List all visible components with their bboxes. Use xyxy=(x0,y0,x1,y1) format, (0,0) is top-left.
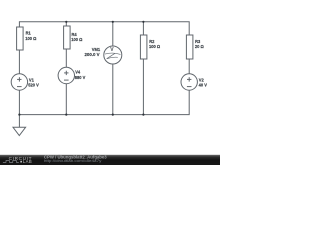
wire VM1 to bottom xyxy=(112,64,114,114)
svg-text:100 Ω: 100 Ω xyxy=(71,37,83,42)
wire R3 to V2 xyxy=(188,59,190,74)
svg-text:LAB: LAB xyxy=(23,159,32,164)
footer CircuitLab logo xyxy=(3,156,32,164)
svg-text:100 Ω: 100 Ω xyxy=(25,36,37,41)
node top V4 xyxy=(65,21,67,23)
wire branch R2 top xyxy=(142,22,144,35)
voltmeter VM1 xyxy=(85,46,122,64)
footer bar xyxy=(0,155,220,165)
svg-text:40 V: 40 V xyxy=(199,82,207,87)
wire R2 to bottom xyxy=(142,59,144,115)
voltage source V1 xyxy=(11,74,39,90)
wire bottom rail xyxy=(19,90,189,114)
voltage source V4 xyxy=(58,67,85,83)
svg-text:20 Ω: 20 Ω xyxy=(195,44,204,49)
wire branch VM1 top xyxy=(112,22,114,46)
svg-text:200.0 V: 200.0 V xyxy=(85,52,100,57)
resistor R3 xyxy=(186,35,204,59)
node top R2 xyxy=(142,21,144,23)
voltage source V2 xyxy=(181,74,207,90)
resistor R1 xyxy=(17,27,37,50)
node bottom VM1 xyxy=(112,114,114,116)
node bottom R2 xyxy=(142,114,144,116)
resistor R2 xyxy=(140,35,160,59)
footer project text xyxy=(44,154,108,163)
svg-text:520 V: 520 V xyxy=(28,82,39,87)
svg-text:http://circuitlab.com/c8e4a7y: http://circuitlab.com/c8e4a7y xyxy=(44,158,102,163)
wire R4 to V4 xyxy=(65,49,67,67)
wire R1 to V1 xyxy=(18,50,20,74)
svg-text:880 V: 880 V xyxy=(75,75,86,80)
resistor R4 xyxy=(64,26,83,49)
wire branch R4/V4 top xyxy=(65,22,67,26)
svg-text:100 Ω: 100 Ω xyxy=(149,44,161,49)
ground xyxy=(13,115,26,136)
wire top rail xyxy=(19,22,189,35)
wire V1 to bottom xyxy=(18,90,20,114)
node bottom ground xyxy=(18,114,20,116)
node bottom V4 xyxy=(65,114,67,116)
node top VM1 xyxy=(112,21,114,23)
wire V4 to bottom xyxy=(65,84,67,115)
